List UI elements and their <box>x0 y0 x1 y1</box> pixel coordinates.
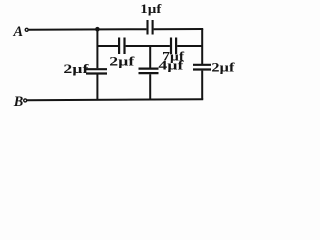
svg-text:2µf: 2µf <box>109 53 135 68</box>
svg-text:2µf: 2µf <box>211 59 235 74</box>
wire top left <box>29 28 147 31</box>
capacitor C1 1uf <box>148 20 153 35</box>
wire right vertical lower <box>201 71 203 100</box>
svg-text:4µf: 4µf <box>158 58 184 73</box>
capacitor C6 2uf right <box>193 65 211 70</box>
capacitor C2 2uf left <box>86 69 107 73</box>
svg-text:2µf: 2µf <box>63 61 89 76</box>
svg-text:B: B <box>13 94 24 110</box>
junction dot <box>95 27 100 32</box>
wire bottom rail <box>27 99 203 100</box>
terminal B <box>24 99 27 102</box>
capacitor C3 2uf middle rail <box>119 38 124 55</box>
wire top right <box>154 28 204 30</box>
capacitor C4 7uf <box>171 38 176 55</box>
svg-text:A: A <box>13 24 24 40</box>
wire left vertical lower <box>96 75 98 101</box>
wire middle vertical lower <box>149 74 151 100</box>
wire middle rail segment 3 <box>177 45 202 47</box>
svg-text:1µf: 1µf <box>140 1 162 16</box>
wire middle rail segment 2 <box>126 45 170 47</box>
capacitor C5 4uf <box>139 69 159 74</box>
wire middle rail segment 1 <box>97 45 118 47</box>
wire middle vertical upper <box>149 46 151 68</box>
wire right vertical upper <box>201 29 203 65</box>
wire left vertical upper <box>96 29 98 68</box>
terminal A <box>25 28 28 31</box>
